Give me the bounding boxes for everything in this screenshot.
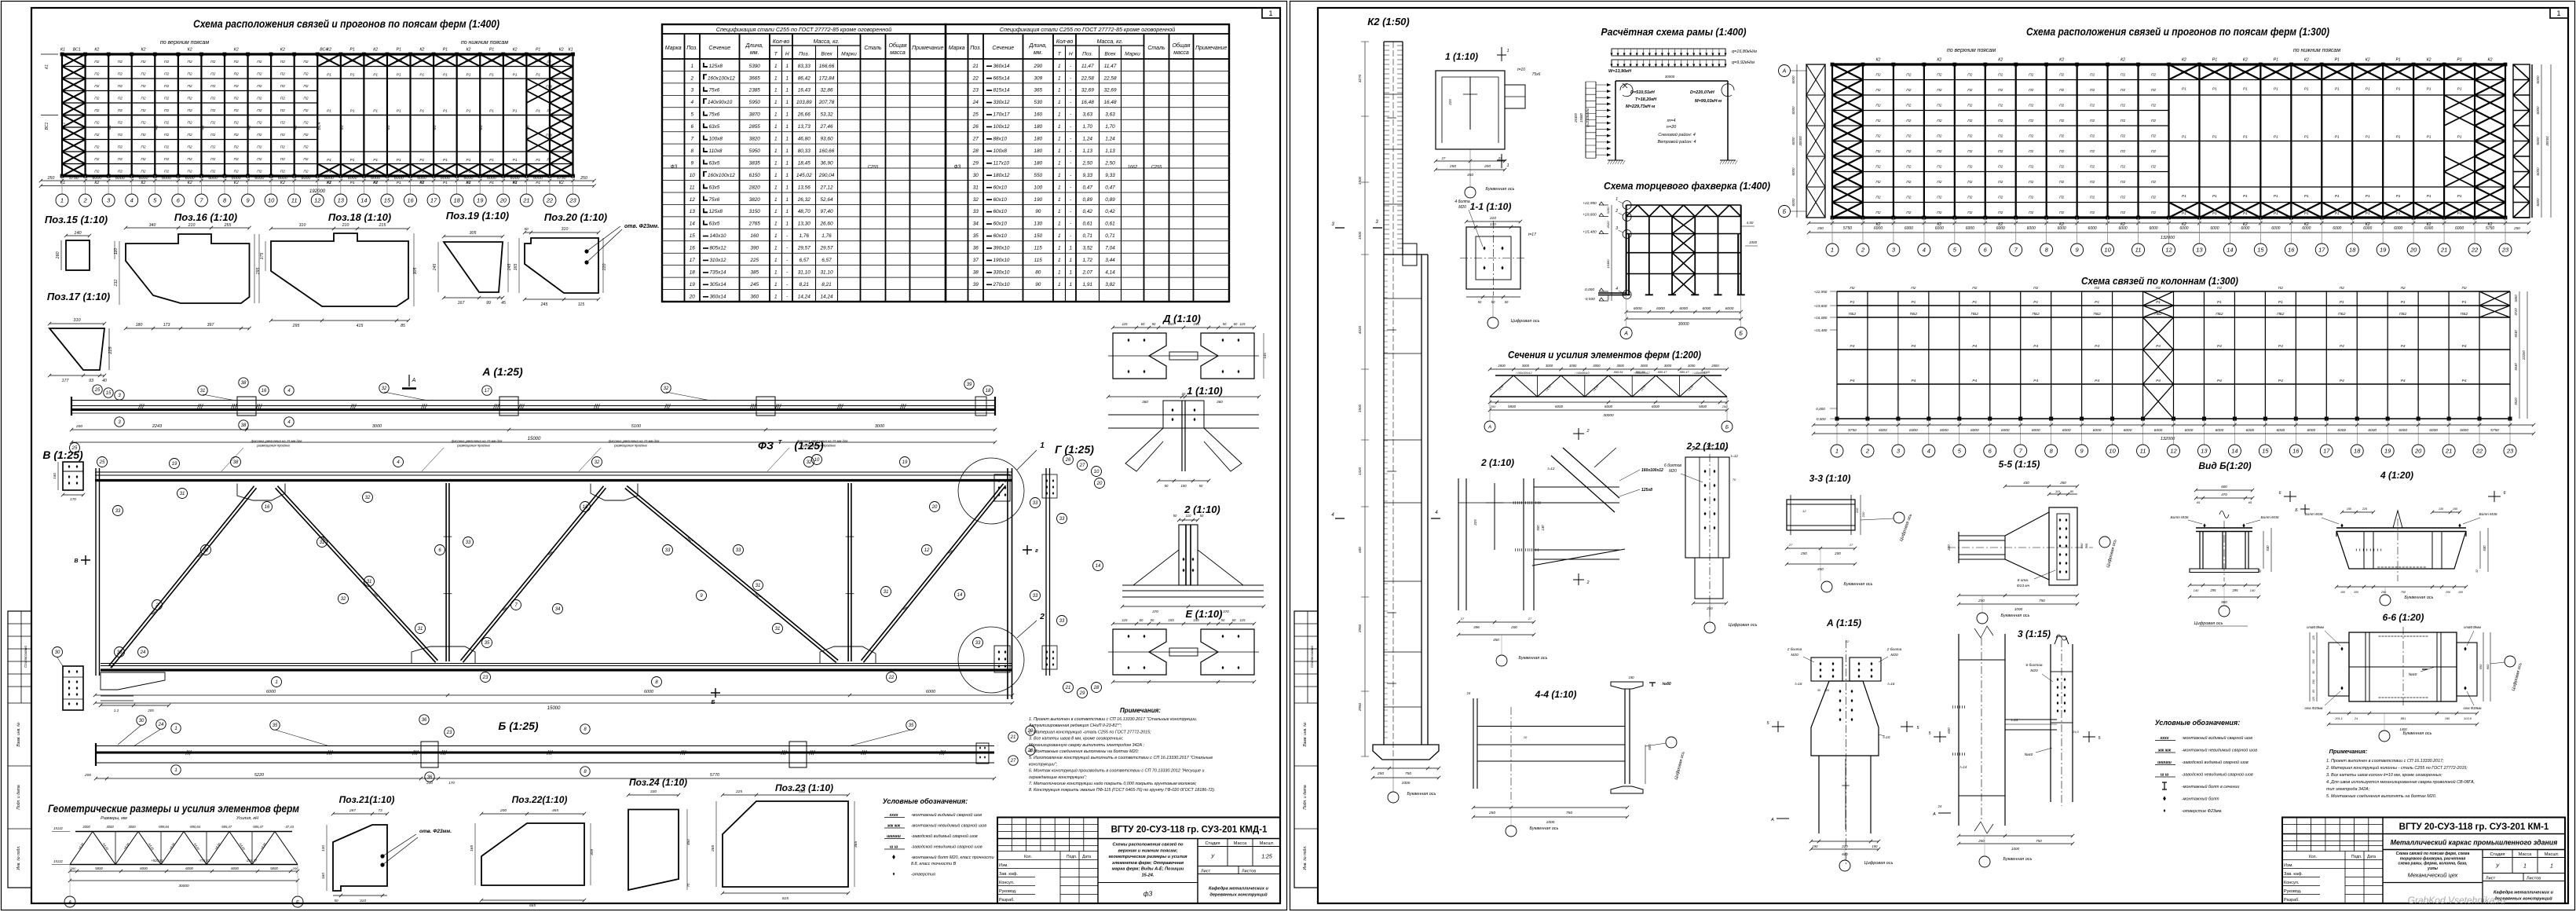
svg-text:6. Монтаж конструкций производ: 6. Монтаж конструкций производить в соот…	[1029, 768, 1204, 774]
svg-text:1: 1	[774, 258, 778, 263]
svg-text:6000: 6000	[2149, 226, 2157, 231]
svg-text:23: 23	[446, 731, 452, 735]
svg-text:29,57: 29,57	[797, 246, 810, 251]
svg-text:5750: 5750	[1848, 428, 1857, 433]
svg-text:П2: П2	[280, 170, 285, 174]
svg-text:П2: П2	[234, 121, 239, 126]
svg-text:21: 21	[1065, 686, 1071, 690]
detail 2 sheet2 section marks	[1573, 428, 1584, 440]
svg-text:3870: 3870	[749, 112, 761, 118]
svg-text:5: 5	[1953, 247, 1957, 254]
svg-text:22,58: 22,58	[1103, 75, 1117, 81]
beam A top chord	[71, 400, 995, 401]
svg-text:мм.: мм.	[750, 50, 759, 56]
svg-text:Общая: Общая	[1172, 42, 1190, 49]
svg-text:75х6: 75х6	[709, 112, 720, 118]
svg-text:Р1: Р1	[2033, 300, 2038, 305]
svg-text:ПБ2: ПБ2	[1849, 312, 1857, 317]
svg-text:6000: 6000	[1935, 226, 1944, 231]
svg-text:1: 1	[774, 64, 778, 69]
svg-text:15132: 15132	[53, 826, 63, 830]
svg-text:150: 150	[1034, 233, 1042, 239]
svg-text:24,0: 24,0	[2072, 731, 2079, 734]
svg-text:9: 9	[2080, 448, 2084, 455]
gable dims	[1624, 310, 1743, 313]
svg-text:П2: П2	[2029, 73, 2033, 78]
svg-text:D=510,51кН: D=510,51кН	[1630, 90, 1656, 95]
beam A end posts	[71, 397, 995, 416]
svg-text:32: 32	[973, 197, 979, 203]
sheet 1 paper edge	[2, 2, 1287, 910]
svg-text:32: 32	[595, 460, 600, 465]
svg-text:П2: П2	[2217, 286, 2222, 291]
svg-text:225: 225	[1448, 99, 1452, 106]
svg-text:1: 1	[1058, 258, 1061, 263]
svg-text:6000: 6000	[2271, 226, 2280, 231]
svg-text:П2: П2	[303, 108, 308, 113]
beam A dimension lines	[70, 428, 997, 431]
truss F3 vertical 6	[446, 483, 449, 661]
svg-text:3. Все катеты швов колонн k=10: 3. Все катеты швов колонн k=10 мм, кроме…	[2326, 773, 2442, 778]
svg-text:665: 665	[529, 903, 536, 908]
svg-text:8 отв.: 8 отв.	[2018, 578, 2029, 583]
svg-text:2 болта: 2 болта	[1886, 647, 1902, 652]
svg-text:Поз.15 (1:10): Поз.15 (1:10)	[45, 214, 108, 225]
svg-text:Р4: Р4	[2217, 344, 2222, 349]
section B dims	[57, 489, 59, 491]
svg-text:ВС1: ВС1	[62, 122, 67, 130]
svg-text:12: 12	[690, 197, 696, 203]
svg-text:6000: 6000	[1905, 226, 1913, 231]
plan2 X braces top and bottom rows	[2169, 64, 2475, 218]
svg-text:-: -	[1070, 88, 1071, 93]
svg-text:210: 210	[342, 223, 349, 228]
svg-text:П2: П2	[1906, 134, 1911, 139]
svg-text:П2: П2	[2120, 119, 2125, 123]
svg-text:Ф3: Ф3	[525, 125, 529, 130]
svg-text:29: 29	[1079, 691, 1085, 696]
svg-text:М20: М20	[1669, 469, 1677, 474]
svg-text:25: 25	[972, 112, 979, 118]
svg-text:П2: П2	[2090, 104, 2095, 108]
svg-text:Р1: Р1	[2366, 194, 2370, 199]
svg-text:Р1: Р1	[419, 181, 424, 185]
svg-text:220: 220	[602, 264, 607, 272]
svg-text:Болт М36: Болт М36	[2260, 515, 2278, 520]
svg-text:4: 4	[1615, 287, 1618, 291]
svg-text:5: 5	[1958, 448, 1962, 455]
svg-text:50: 50	[1199, 484, 1203, 488]
svg-text:Вид Б(1:20): Вид Б(1:20)	[2198, 460, 2251, 471]
svg-text:6000: 6000	[2455, 226, 2464, 231]
svg-text:30: 30	[139, 719, 145, 723]
svg-text:П2: П2	[1911, 286, 1916, 291]
svg-text:250: 250	[2380, 591, 2387, 594]
svg-text:5800: 5800	[95, 866, 103, 870]
svg-text:Поз.: Поз.	[970, 46, 981, 51]
svg-text:-: -	[1070, 112, 1071, 118]
svg-text:100: 100	[1034, 185, 1042, 190]
svg-text:П2: П2	[1937, 180, 1941, 185]
svg-text:1,76: 1,76	[800, 233, 810, 239]
svg-text:Расчётная схема рамы (1:400): Расчётная схема рамы (1:400)	[1601, 26, 1747, 38]
detail 3 right column strip	[2051, 644, 2073, 802]
svg-text:+19,800: +19,800	[1583, 213, 1597, 218]
svg-text:200: 200	[2445, 591, 2450, 594]
svg-text:160,66: 160,66	[819, 148, 835, 154]
svg-text:22: 22	[888, 676, 895, 680]
svg-text:Г (1:25): Г (1:25)	[1055, 443, 1094, 456]
svg-text:14: 14	[690, 222, 696, 227]
frame moment arrows	[1620, 84, 1633, 97]
detail 4-4 right I profile	[1625, 689, 1630, 784]
svg-text:20: 20	[2414, 448, 2422, 455]
svg-text:2820: 2820	[748, 185, 761, 190]
svg-text:-заводской невидимый сварной ш: -заводской невидимый сварной шов	[911, 844, 982, 850]
svg-text:Т: Т	[778, 438, 783, 445]
svg-text:160х100х12: 160х100х12	[708, 75, 735, 81]
svg-text:6000: 6000	[1652, 405, 1660, 408]
svg-text:22: 22	[2475, 448, 2483, 455]
svg-text:Р1: Р1	[2274, 211, 2278, 216]
svg-text:6000: 6000	[487, 176, 496, 181]
svg-text:П2: П2	[1937, 165, 1941, 170]
svg-text:П2: П2	[2090, 88, 2095, 93]
svg-text:9,33: 9,33	[1105, 173, 1115, 178]
svg-text:11: 11	[2140, 448, 2146, 455]
svg-text:1: 1	[774, 282, 778, 288]
geom truss webs	[70, 832, 298, 865]
svg-text:3,52: 3,52	[1083, 246, 1093, 251]
svg-text:-: -	[1070, 124, 1071, 130]
svg-text:5100: 5100	[631, 424, 642, 429]
svg-text:65: 65	[2312, 650, 2315, 654]
svg-text:6000: 6000	[140, 866, 148, 870]
svg-text:6-6 (1:20): 6-6 (1:20)	[2383, 612, 2424, 623]
svg-text:П2: П2	[1875, 149, 1880, 154]
svg-text:№60: №60	[2025, 753, 2033, 757]
svg-text:2,50: 2,50	[1082, 160, 1093, 166]
svg-text:0,42: 0,42	[1083, 209, 1093, 214]
svg-text:24: 24	[158, 723, 164, 727]
svg-text:1: 1	[785, 137, 789, 142]
svg-text:3665: 3665	[749, 75, 761, 81]
svg-text:18: 18	[690, 269, 696, 275]
svg-text:Р1: Р1	[2396, 135, 2401, 140]
svg-text:П2: П2	[303, 72, 308, 77]
detail A column below	[1819, 756, 1871, 833]
svg-text:220: 220	[1861, 511, 1865, 518]
sections truss chords	[1495, 375, 1722, 376]
svg-text:60х10: 60х10	[993, 209, 1008, 214]
svg-text:Буквенная ось: Буквенная ось	[2003, 857, 2033, 862]
svg-text:4: 4	[1435, 511, 1438, 515]
view B bolts	[2203, 523, 2205, 527]
title block description cell	[1197, 839, 1198, 904]
svg-text:t=16: t=16	[1888, 682, 1895, 686]
svg-text:Р1: Р1	[467, 158, 471, 163]
detail 3-3 drawing	[1787, 500, 1855, 530]
svg-text:Консул.: Консул.	[999, 881, 1015, 885]
svg-text:Р4: Р4	[2156, 344, 2161, 349]
svg-text:-0,500: -0,500	[1584, 297, 1595, 302]
svg-text:15: 15	[2262, 448, 2269, 455]
svg-text:Р1: Р1	[397, 73, 401, 78]
svg-text:Р1: Р1	[373, 170, 378, 174]
svg-text:П2: П2	[94, 170, 99, 174]
svg-text:750: 750	[2401, 591, 2406, 594]
svg-text:А: А	[1770, 818, 1774, 822]
svg-text:7,04: 7,04	[1105, 246, 1115, 251]
svg-text:П2: П2	[2029, 119, 2033, 123]
section B chord section box	[63, 462, 83, 490]
svg-text:Спецификация стали С255 по ГОС: Спецификация стали С255 по ГОСТ 27772-85…	[716, 26, 891, 33]
svg-text:80: 80	[1035, 269, 1041, 275]
detail 4 dims	[2340, 511, 2375, 514]
svg-text:Поз.20 (1:10): Поз.20 (1:10)	[544, 211, 607, 223]
svg-text:23: 23	[2501, 247, 2509, 254]
svg-text:3000: 3000	[372, 424, 382, 429]
svg-text:ПБ2: ПБ2	[2461, 312, 2468, 317]
svg-text:Р1: Р1	[513, 109, 518, 114]
svg-text:-0,500: -0,500	[1815, 417, 1825, 421]
svg-text:m=4: m=4	[1667, 119, 1676, 123]
svg-text:+15,480: +15,480	[1814, 328, 1828, 332]
svg-text:6000: 6000	[463, 176, 473, 181]
svg-text:-: -	[1070, 173, 1071, 178]
svg-text:3-3 (1:10): 3-3 (1:10)	[1809, 473, 1851, 484]
svg-text:13,73: 13,73	[798, 124, 810, 130]
svg-text:Кол-во: Кол-во	[1056, 39, 1074, 45]
svg-text:1: 1	[785, 64, 789, 69]
truss F3 bottom gusset 2	[820, 646, 876, 664]
svg-text:П2: П2	[2059, 211, 2064, 215]
svg-text:3000: 3000	[1688, 364, 1696, 368]
svg-text:Р1: Р1	[536, 181, 540, 185]
svg-text:115: 115	[1122, 618, 1129, 622]
svg-text:Р1: Р1	[443, 181, 448, 185]
svg-text:Р1: Р1	[397, 181, 401, 185]
svg-text:М=99,03кН·м: М=99,03кН·м	[1695, 99, 1722, 104]
svg-text:Р1: Р1	[2243, 211, 2248, 216]
margin stamp column	[1294, 611, 1318, 888]
svg-text:2 болта: 2 болта	[1787, 647, 1802, 652]
svg-text:1: 1	[1058, 148, 1061, 154]
detail 4-4 left plate	[1473, 698, 1477, 789]
svg-text:0,000: 0,000	[1816, 407, 1825, 411]
svg-text:6000: 6000	[1874, 226, 1883, 231]
svg-text:Р1: Р1	[513, 170, 518, 174]
svg-text:П2: П2	[2090, 165, 2095, 170]
svg-text:П2: П2	[234, 72, 239, 77]
svg-text:П2: П2	[210, 145, 215, 150]
svg-text:1500: 1500	[1358, 231, 1362, 240]
svg-text:3000: 3000	[1616, 364, 1624, 368]
svg-text:6000: 6000	[2241, 226, 2249, 231]
svg-text:330х12: 330х12	[993, 100, 1010, 105]
svg-text:-585,47: -585,47	[1679, 371, 1690, 374]
svg-text:отвФ39мм: отвФ39мм	[2464, 625, 2481, 629]
detail pos.18 plate	[271, 233, 408, 306]
svg-text:7. Металлические конструкции н: 7. Металлические конструкции надо покрыт…	[1029, 782, 1197, 786]
column K2 section marks 3 and 4	[1335, 227, 1382, 229]
svg-text:6000: 6000	[2154, 428, 2163, 433]
svg-text:Поз.: Поз.	[686, 46, 697, 51]
svg-text:П2: П2	[2029, 180, 2033, 185]
svg-text:1,70: 1,70	[1105, 124, 1115, 130]
svg-text:Р1: Р1	[2212, 194, 2217, 199]
svg-text:К2: К2	[419, 48, 424, 53]
svg-text:Ветровой район: 4: Ветровой район: 4	[1657, 139, 1696, 145]
svg-text:П2: П2	[1937, 119, 1941, 123]
svg-text:+19,800: +19,800	[1814, 304, 1828, 308]
svg-text:24: 24	[2354, 717, 2358, 720]
svg-text:4320: 4320	[1358, 325, 1362, 334]
svg-text:Р1: Р1	[467, 181, 471, 185]
svg-text:180: 180	[1034, 148, 1042, 154]
svg-text:размещения прогона: размещения прогона	[613, 444, 647, 448]
svg-text:П2: П2	[280, 72, 285, 77]
svg-text:250: 250	[580, 176, 587, 181]
svg-text:П2: П2	[1967, 165, 1972, 170]
svg-text:16,48: 16,48	[1104, 100, 1117, 105]
svg-text:К2: К2	[2488, 58, 2493, 63]
svg-text:23: 23	[972, 88, 979, 93]
svg-text:1000: 1000	[2014, 607, 2023, 611]
svg-text:115: 115	[578, 302, 584, 307]
truss F3 top gusset 2	[591, 484, 638, 501]
svg-text:6000: 6000	[2246, 428, 2255, 433]
svg-text:Поз.16 (1:10): Поз.16 (1:10)	[174, 211, 237, 223]
svg-text:33: 33	[115, 509, 121, 514]
svg-text:ГС3: ГС3	[2242, 70, 2249, 75]
svg-text:3,63: 3,63	[1083, 112, 1093, 118]
svg-text:по нижним поясам: по нижним поясам	[461, 40, 508, 46]
svg-text:15: 15	[106, 391, 112, 396]
svg-text:марка ферм; Виды А-Е; Позиции: марка ферм; Виды А-Е; Позиции	[1112, 866, 1184, 872]
svg-text:схема рамы, ферма, колонна, ба: схема рамы, ферма, колонна, база,	[2399, 861, 2468, 866]
svg-text:100: 100	[1180, 484, 1187, 488]
svg-text:3000: 3000	[875, 424, 885, 429]
svg-text:103,9: 103,9	[2464, 717, 2472, 720]
svg-text:1: 1	[1069, 282, 1072, 288]
svg-text:Масса, кг.: Масса, кг.	[814, 39, 840, 45]
svg-text:6000: 6000	[644, 690, 654, 694]
svg-text:Лист: Лист	[1201, 870, 1211, 874]
svg-text:Согласовано: Согласовано	[1310, 646, 1314, 668]
svg-text:4: 4	[1331, 513, 1334, 518]
svg-text:22: 22	[2471, 247, 2479, 254]
svg-text:+4,19: +4,19	[1702, 371, 1710, 374]
svg-text:310х12: 310х12	[710, 258, 726, 263]
svg-text:П2: П2	[1967, 211, 1972, 215]
svg-text:24: 24	[140, 650, 146, 655]
svg-text:3000: 3000	[1546, 364, 1553, 368]
colbrace base marks	[1835, 417, 2512, 421]
svg-text:155: 155	[1168, 618, 1174, 622]
svg-text:1320: 1320	[1358, 467, 1362, 475]
svg-text:4,50: 4,50	[1747, 221, 1754, 225]
svg-text:3. Все катеты швов 8 мм, кроме: 3. Все катеты швов 8 мм, кроме оговоренн…	[1029, 737, 1124, 742]
svg-text:мм.: мм.	[1034, 50, 1043, 56]
svg-text:П2: П2	[1998, 165, 2003, 170]
svg-text:530: 530	[1034, 100, 1042, 105]
svg-text:30000: 30000	[1665, 75, 1675, 79]
svg-text:660: 660	[2080, 543, 2084, 548]
svg-text:5. Изготовление конструкций вы: 5. Изготовление конструкций выполнить в …	[1029, 755, 1213, 760]
plan grid purlins right half	[317, 67, 573, 164]
frame wind load strip	[1586, 82, 1596, 158]
svg-text:6000: 6000	[417, 176, 426, 181]
svg-text:170: 170	[1490, 222, 1496, 226]
svg-text:Кол.: Кол.	[1024, 855, 1032, 859]
svg-text:⌐160x100x12: ⌐160x100x12	[1516, 372, 1532, 375]
svg-text:1,13: 1,13	[1105, 148, 1115, 154]
svg-text:Б: Б	[1725, 424, 1729, 430]
svg-text:Ф3: Ф3	[108, 125, 112, 130]
svg-text:3: 3	[1375, 220, 1378, 225]
svg-text:П2: П2	[2120, 104, 2125, 108]
svg-text:С255: С255	[868, 165, 879, 170]
plan2 axis circles	[1832, 218, 2505, 244]
svg-text:6 болтов: 6 болтов	[2025, 663, 2043, 668]
svg-text:30000: 30000	[1678, 322, 1689, 327]
svg-text:28: 28	[1093, 686, 1100, 690]
colbrace X right end top rows	[2479, 291, 2510, 317]
svg-text:115: 115	[1122, 322, 1129, 326]
plan2 left axis circles A B	[1779, 65, 1791, 77]
svg-text:2: 2	[155, 603, 159, 608]
svg-text:6000: 6000	[2399, 428, 2407, 433]
svg-text:П2: П2	[118, 72, 123, 77]
plan2 X braces left bay	[1832, 64, 1863, 218]
svg-text:П2: П2	[1906, 196, 1911, 200]
truss F3 diagonal 2	[109, 486, 257, 668]
svg-text:Р4: Р4	[1850, 379, 1855, 383]
svg-text:К2: К2	[141, 181, 146, 185]
svg-text:130: 130	[321, 845, 326, 852]
detail pos.19 plate	[444, 242, 503, 292]
svg-text:1: 1	[1058, 233, 1061, 239]
svg-text:160: 160	[56, 251, 60, 258]
svg-text:Длина,: Длина,	[1029, 43, 1048, 49]
sheet 2 inner frame	[1318, 8, 2568, 903]
svg-text:50: 50	[1151, 618, 1154, 622]
svg-text:650: 650	[2479, 664, 2483, 669]
svg-text:14: 14	[1096, 564, 1101, 569]
svg-text:Р1: Р1	[327, 181, 331, 185]
svg-text:элементов ферм; Отправочная: элементов ферм; Отправочная	[1112, 860, 1184, 866]
svg-text:Р1: Р1	[327, 73, 331, 78]
svg-text:Ф3: Ф3	[340, 125, 344, 130]
truss F3 diagonal 9	[625, 486, 838, 663]
svg-text:40: 40	[102, 379, 107, 383]
svg-text:А: А	[1782, 69, 1787, 75]
gable left dim chain	[1611, 205, 1612, 301]
svg-text:+4,50: +4,50	[214, 842, 221, 851]
svg-text:У: У	[2495, 864, 2501, 870]
svg-text:Ф3: Ф3	[200, 125, 204, 130]
svg-text:5950: 5950	[749, 148, 761, 154]
svg-text:1: 1	[1058, 246, 1061, 251]
svg-text:340: 340	[149, 223, 156, 228]
svg-text:Р1: Р1	[350, 109, 355, 114]
svg-text:6000: 6000	[1879, 428, 1887, 433]
svg-text:11: 11	[690, 185, 695, 190]
svg-text:П2: П2	[234, 133, 239, 137]
svg-text:масса: масса	[890, 50, 906, 56]
frame load strips	[1612, 49, 1725, 56]
